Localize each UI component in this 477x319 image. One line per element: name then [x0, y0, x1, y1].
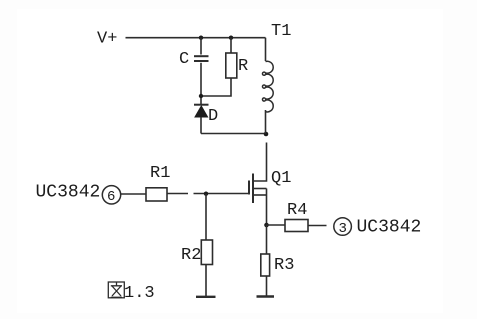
wire R1 to gate with scan break	[167, 193, 188, 195]
svg-text:3: 3	[339, 221, 347, 237]
node junction dot above diode	[199, 94, 203, 98]
svg-text:6: 6	[107, 189, 115, 205]
node junction dot drain/transformer	[264, 132, 269, 137]
wire source node to R4	[267, 224, 286, 226]
wire R branch lower to C branch	[203, 78, 231, 96]
node junction dot C tap	[199, 36, 203, 40]
svg-text:C: C	[179, 50, 189, 69]
node junction dot R2 tap	[204, 192, 208, 196]
svg-text:R3: R3	[274, 256, 294, 275]
resistor R4	[285, 220, 308, 232]
svg-text:D: D	[208, 107, 218, 126]
wire R2 upper	[205, 194, 207, 240]
svg-text:UC3842: UC3842	[357, 218, 422, 238]
wire pin6 to R1	[121, 193, 146, 195]
svg-text:R1: R1	[150, 164, 170, 183]
inductor T1 winding	[262, 61, 273, 112]
resistor R	[226, 53, 237, 78]
pin 6 circle UC3842	[102, 186, 120, 204]
wire C branch upper	[200, 38, 202, 55]
wire R3 upper	[266, 225, 268, 254]
node junction dot R tap	[229, 36, 233, 40]
wire R4 to pin 3	[308, 225, 327, 227]
wire C branch lower	[200, 63, 202, 104]
resistor R1	[146, 188, 167, 201]
resistor R3	[261, 254, 270, 276]
transformer T1 primary lower lead	[265, 110, 267, 134]
caption figure glyph 图	[108, 282, 124, 298]
transistor Q1	[249, 174, 267, 204]
svg-text:R2: R2	[181, 246, 201, 265]
pin 3 circle UC3842	[334, 218, 352, 236]
svg-text:R: R	[238, 57, 248, 76]
ground R3	[257, 295, 275, 297]
diode D	[194, 105, 209, 117]
wire R2 lower	[205, 265, 207, 297]
resistor R2	[201, 240, 212, 265]
svg-text:R4: R4	[287, 201, 307, 220]
wire gate segment	[194, 193, 250, 195]
wire R branch upper	[230, 38, 232, 53]
capacitor C	[194, 56, 209, 61]
svg-text:Q1: Q1	[271, 169, 291, 188]
wire drain lead	[254, 143, 267, 182]
node junction dot source	[264, 223, 269, 228]
wire top rail from V+ to T1	[126, 37, 266, 39]
wire snubber bottom rail	[201, 133, 266, 135]
wire source lead down to node	[266, 189, 268, 226]
svg-text:T1: T1	[271, 22, 291, 41]
svg-text:UC3842: UC3842	[36, 183, 101, 203]
wire diode anode down to snubber bottom	[200, 117, 202, 134]
svg-text:1.3: 1.3	[124, 284, 155, 303]
wire R3 lower	[266, 276, 268, 296]
transformer T1 primary upper lead	[265, 38, 267, 61]
ground R2	[196, 296, 216, 298]
svg-text:V+: V+	[97, 30, 117, 49]
